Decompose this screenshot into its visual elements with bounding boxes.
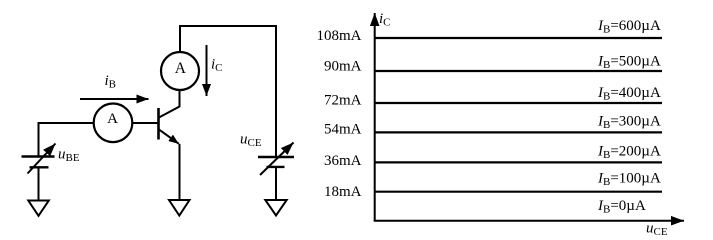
curve IB=600uA <box>375 37 662 39</box>
svg-text:A: A <box>107 111 118 127</box>
svg-text:18mA: 18mA <box>324 184 362 200</box>
svg-text:uCE: uCE <box>240 132 262 150</box>
svg-text:IB=600µA: IB=600µA <box>597 18 661 36</box>
wire uBE top to ammeter A1 <box>39 123 94 157</box>
wire A1 to base <box>132 122 157 124</box>
svg-text:iC: iC <box>379 11 391 29</box>
arrow iC <box>206 45 208 96</box>
y-axis iC <box>374 13 376 221</box>
svg-text:A: A <box>175 60 187 77</box>
ground (uCE) <box>265 200 286 216</box>
arrow iB <box>80 98 149 100</box>
source uBE (adjustable) <box>22 144 56 174</box>
svg-text:72mA: 72mA <box>324 93 362 109</box>
curve IB=100uA <box>375 191 662 193</box>
wire right branch down <box>275 25 277 157</box>
svg-text:IB=400µA: IB=400µA <box>597 85 661 103</box>
wire uBE to ground <box>38 167 40 200</box>
svg-text:uCE: uCE <box>646 220 668 238</box>
svg-text:54mA: 54mA <box>324 122 362 138</box>
source uCE (adjustable) <box>258 143 294 176</box>
curve IB=500uA <box>375 70 662 72</box>
svg-text:IB=500µA: IB=500µA <box>597 54 661 72</box>
svg-text:iC: iC <box>211 56 223 74</box>
curve IB=400uA <box>375 102 662 104</box>
curve IB=200uA <box>375 161 662 163</box>
wire top run <box>179 25 276 27</box>
wire A2 top <box>179 26 181 52</box>
ground (emitter) <box>169 200 190 216</box>
svg-text:90mA: 90mA <box>324 59 362 75</box>
svg-text:IB=100µA: IB=100µA <box>597 171 661 189</box>
ground (uBE) <box>28 201 49 216</box>
wire uCE to ground <box>275 167 277 200</box>
x-axis uCE <box>374 220 684 222</box>
svg-text:36mA: 36mA <box>324 153 362 169</box>
svg-text:IB=200µA: IB=200µA <box>597 143 661 161</box>
chart axes <box>374 13 684 221</box>
svg-text:108mA: 108mA <box>317 28 362 44</box>
ammeter A2 <box>161 52 199 90</box>
svg-text:uBE: uBE <box>58 146 80 164</box>
curve IB=300uA <box>375 131 662 133</box>
svg-text:iB: iB <box>105 73 117 91</box>
ammeter A1 <box>94 104 133 143</box>
svg-text:IB=0µA: IB=0µA <box>597 198 646 216</box>
transistor Q1 <box>159 90 180 200</box>
svg-text:IB=300µA: IB=300µA <box>597 113 661 131</box>
